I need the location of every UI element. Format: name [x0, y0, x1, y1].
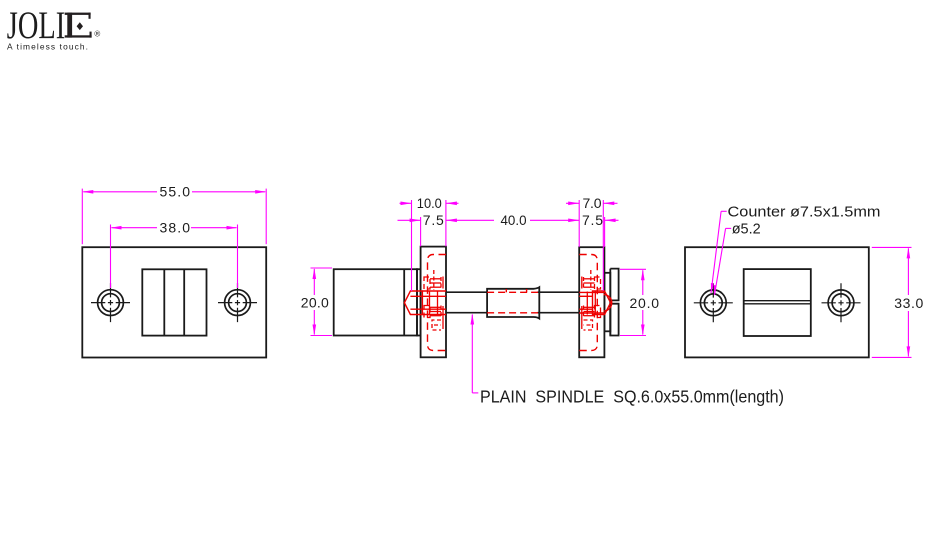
right view center square [744, 269, 811, 336]
svg-text:7.0: 7.0 [583, 195, 602, 211]
spindle shaft [446, 292, 579, 313]
right view hole left [694, 283, 733, 322]
dim 7.5 right [605, 217, 619, 247]
left view center square [142, 269, 206, 335]
svg-text:Counter ø7.5x1.5mm: Counter ø7.5x1.5mm [728, 205, 881, 221]
knob left body [334, 269, 421, 335]
slot line 2 [744, 303, 811, 305]
left view hole left [91, 283, 130, 322]
leader counter [711, 211, 727, 293]
leader 5.2 [714, 228, 732, 295]
left view plate outline [82, 247, 266, 357]
svg-text:55.0: 55.0 [160, 184, 191, 200]
sleeve screw ticks [506, 289, 526, 292]
dim 20.0 right [620, 269, 646, 335]
rose left [421, 247, 446, 358]
svg-text:PLAIN SPINDLE SQ.6.0x55.0mm(: PLAIN SPINDLE SQ.6.0x55.0mm(length) [480, 386, 784, 406]
dim 38.0 [111, 225, 238, 289]
slot line 1 [744, 300, 811, 302]
svg-text:33.0: 33.0 [894, 295, 923, 311]
svg-text:20.0: 20.0 [630, 295, 660, 311]
sleeve hidden lines [487, 292, 538, 313]
screws hidden left rose [424, 270, 443, 330]
dim 10.0 [400, 200, 459, 291]
dim 40.0 [446, 219, 579, 223]
dim 7.5 left [398, 217, 421, 246]
square divider 1 [163, 269, 165, 335]
svg-text:®: ® [94, 30, 100, 39]
square divider 2 [183, 269, 185, 335]
svg-text:A timeless touch.: A timeless touch. [7, 42, 88, 52]
dim 20.0 left [311, 268, 333, 336]
svg-text:7.5: 7.5 [423, 212, 444, 228]
spindle sleeve [487, 287, 539, 318]
logo JOLIE [7, 4, 101, 52]
rose right [579, 247, 604, 357]
leader plain spindle [471, 314, 479, 393]
svg-text:40.0: 40.0 [501, 212, 527, 228]
hidden rose cover right [579, 255, 597, 351]
spindle end right (hidden in knob) [579, 291, 612, 315]
screws hidden right rose [582, 270, 601, 330]
hidden rose cover left [428, 255, 447, 351]
dim 33.0 [872, 247, 912, 357]
right view hole right [822, 283, 861, 322]
svg-text:10.0: 10.0 [417, 195, 442, 211]
svg-text:7.5: 7.5 [582, 212, 603, 228]
svg-text:20.0: 20.0 [301, 294, 329, 310]
spindle end left (hidden in knob) [404, 291, 446, 315]
knob right [604, 269, 618, 336]
svg-text:38.0: 38.0 [160, 220, 191, 236]
custom E of logo [65, 13, 92, 38]
dim 55.0 [82, 189, 266, 245]
left view hole right [218, 283, 257, 322]
right view plate outline [685, 247, 869, 357]
svg-text:ø5.2: ø5.2 [732, 221, 761, 237]
dim 7.0 [566, 200, 618, 291]
